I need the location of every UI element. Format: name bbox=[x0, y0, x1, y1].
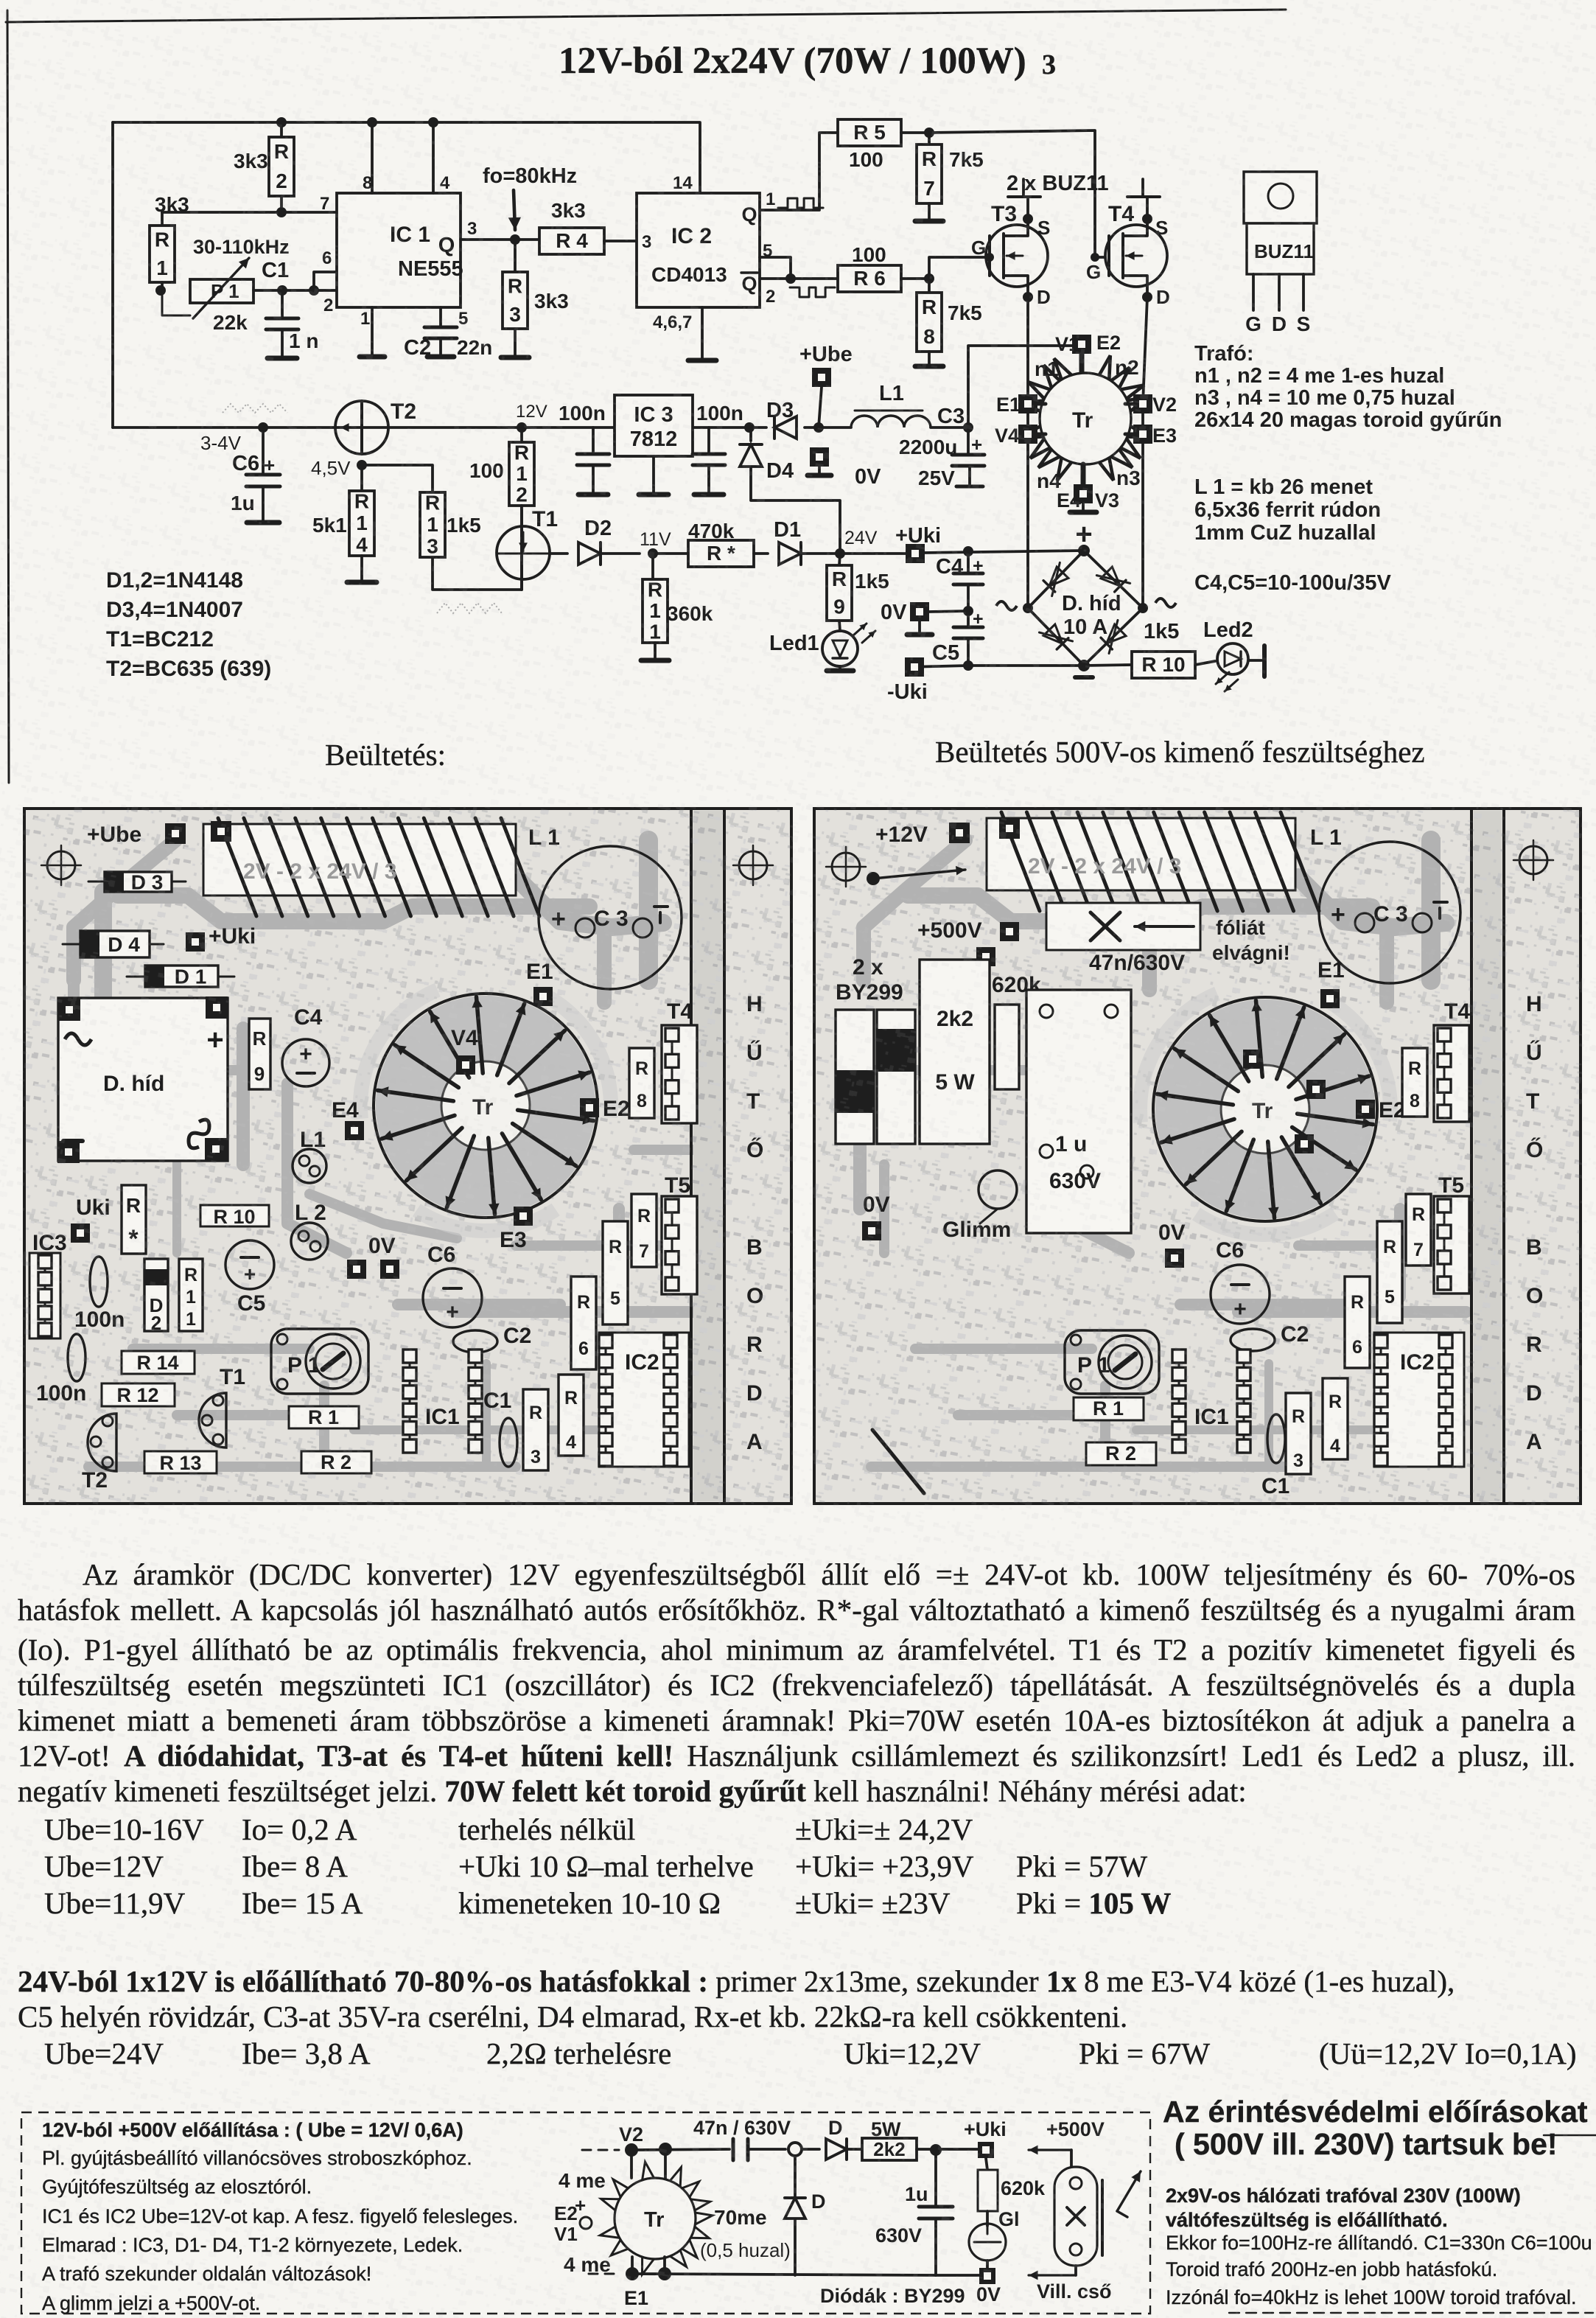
left PCB copper traces bbox=[70, 833, 704, 1467]
node: pin2 junction bbox=[309, 248, 333, 315]
node V4 pad bbox=[995, 425, 1046, 447]
zener diode D (mini) bbox=[785, 2156, 826, 2275]
LED Led2 bbox=[1195, 618, 1264, 691]
right PCB IC2 socket bbox=[1374, 1333, 1464, 1467]
mini Tr top leads bbox=[619, 2123, 672, 2179]
wire: 12V centre-tap feed to transformer bbox=[968, 346, 1082, 427]
wire: P1 to C1 to IC1 pin2/6 bbox=[253, 272, 337, 290]
left PCB diode D4 bbox=[63, 931, 164, 957]
left PCB resistor R12 bbox=[102, 1383, 175, 1406]
diode D2 (1N4148) bbox=[550, 517, 640, 565]
label: L1 notes bbox=[1194, 475, 1381, 545]
right PCB capacitor 1u 630V box bbox=[1026, 990, 1131, 1233]
flash tube Vill.cso (mini) bbox=[1029, 2167, 1141, 2303]
resistor R7 bbox=[901, 133, 984, 221]
left PCB diode D3 bbox=[88, 871, 186, 894]
left PCB resistor R10 bbox=[200, 1205, 269, 1228]
right PCB resistor R2 bbox=[1086, 1442, 1156, 1465]
resistor R9 bbox=[827, 554, 889, 631]
right PCB pad 0V middle bbox=[1158, 1221, 1186, 1268]
left PCB corner marks bbox=[41, 845, 773, 885]
capacitor C5 bbox=[932, 609, 984, 666]
transistor T4 (BUZ11 MOSFET) bbox=[1086, 179, 1170, 308]
right PCB capacitor C6 bbox=[1211, 1238, 1270, 1324]
right PCB resistor R7 bbox=[1406, 1194, 1431, 1266]
left PCB pad V4 bbox=[451, 1026, 478, 1075]
node: 0V junction bbox=[963, 606, 973, 616]
node: R1 bottom junction bbox=[155, 285, 166, 296]
left PCB capacitor C3 bbox=[539, 846, 682, 989]
left PCB capacitor C4 bbox=[282, 1005, 329, 1086]
left PCB resistor R13 bbox=[144, 1451, 217, 1474]
right PCB pad +500V bbox=[917, 918, 1019, 966]
wire: -Uki rail bbox=[907, 665, 1132, 667]
capacitor C2 bbox=[404, 307, 492, 360]
right PCB resistor R8 bbox=[1402, 1048, 1427, 1117]
right PCB resistor R4 bbox=[1323, 1378, 1348, 1459]
left PCB resistor R-star bbox=[122, 1185, 146, 1254]
diode D4 (1N4007) bbox=[740, 427, 840, 554]
node E1 pad bbox=[996, 394, 1046, 416]
right PCB capacitor C3 bbox=[1319, 842, 1460, 983]
left PCB resistor R5 bbox=[603, 1221, 628, 1324]
potentiometer P1 bbox=[162, 236, 290, 334]
flip-flop IC2 CD4013 bbox=[637, 173, 760, 332]
mini Tr E2/V1 terminal bbox=[554, 2194, 592, 2245]
right PCB pad E1 bbox=[1317, 958, 1345, 1008]
node E3 pad bbox=[1125, 425, 1177, 447]
node: R5 junction bbox=[924, 128, 934, 138]
right PCB diodes 2x BY299 bbox=[836, 955, 915, 1144]
pad +Uki bbox=[895, 524, 941, 563]
label: D/T part equivalences bbox=[106, 568, 271, 681]
wire: R13 bottom to T1 bbox=[433, 557, 522, 590]
wire: T4 drain to bridge right bbox=[1143, 297, 1147, 608]
BUZ11 package drawing bbox=[1244, 172, 1317, 335]
resistor 2k2 5W (mini) bbox=[862, 2118, 980, 2160]
label: C4,C5 note bbox=[1194, 571, 1391, 595]
left PCB capacitor C2 bbox=[453, 1324, 531, 1352]
right PCB transistor T4 package bbox=[1434, 999, 1470, 1122]
right PCB pad E2 bbox=[1356, 1098, 1406, 1123]
right PCB board outline bbox=[814, 809, 1581, 1504]
pad 0V output bbox=[881, 601, 968, 635]
op-amp U1: IC1 NE555 timer bbox=[337, 173, 477, 329]
resistor R8 bbox=[915, 279, 982, 366]
node: C1 junction bbox=[277, 285, 287, 296]
left PCB resistor R4 bbox=[559, 1375, 584, 1456]
resistor R1 bbox=[150, 193, 189, 290]
left PCB inductor L1 winding area bbox=[203, 818, 560, 916]
left PCB capacitor 100n lower bbox=[36, 1334, 86, 1406]
glimm lamp Gl (mini) bbox=[969, 2208, 1020, 2270]
right PCB toroid pads bbox=[1243, 1050, 1326, 1153]
right PCB jumper arrow bbox=[867, 866, 965, 885]
transformer Tr (toroid) bbox=[1020, 355, 1151, 492]
node: pin2/pin5 junction bbox=[785, 273, 796, 284]
wire: 24V output rail bbox=[840, 551, 1084, 554]
node: R6 junction bbox=[924, 273, 934, 284]
node: C6 junction bbox=[200, 422, 268, 454]
node V1/E2 pad (transformer top) bbox=[1055, 332, 1121, 355]
right PCB glimm lamp bbox=[942, 1170, 1017, 1242]
capacitor: 100n after IC3 bbox=[693, 402, 743, 495]
right PCB capacitor 47n/630V label bbox=[1089, 951, 1185, 975]
right PCB transistor T5 package bbox=[1434, 1173, 1469, 1294]
wire: R6 junction to T3 gate bbox=[929, 257, 990, 279]
pad 0V near L1 bbox=[808, 447, 881, 489]
right PCB pen stroke bbox=[872, 1430, 924, 1493]
resistor R12 bbox=[469, 427, 534, 506]
node: 11V junction bbox=[640, 529, 671, 559]
diode D (mini, series) bbox=[826, 2117, 862, 2160]
mini dashed stub bbox=[589, 2273, 621, 2275]
right PCB resistor 2k2 5W bbox=[920, 960, 990, 1144]
left PCB resistor R9 bbox=[249, 1019, 270, 1089]
left PCB board outline bbox=[24, 809, 791, 1504]
diode D3 (1N4007) bbox=[766, 399, 797, 439]
left PCB inductor L1 ferrite bbox=[293, 1128, 326, 1183]
transistor T1 (BC212) bbox=[497, 506, 558, 590]
node: R12 junction 12V bbox=[516, 402, 547, 433]
resistor R4 bbox=[539, 199, 637, 254]
left PCB resistor R3 bbox=[523, 1389, 548, 1470]
left PCB pad E2 bbox=[580, 1097, 630, 1121]
pad +Ube bbox=[799, 343, 853, 427]
node: pin3 junction bbox=[510, 234, 520, 245]
left PCB resistor R14 bbox=[122, 1351, 195, 1374]
capacitor: 100n before IC3 bbox=[559, 402, 609, 495]
left PCB IC2 socket bbox=[599, 1333, 689, 1467]
left PCB pad +Uki bbox=[186, 924, 256, 952]
resistor R* bbox=[653, 520, 754, 567]
left PCB diode D2 bbox=[144, 1259, 168, 1334]
transistor T2 (BC635) bbox=[335, 399, 416, 454]
diode D1 (1N4148) bbox=[754, 518, 840, 565]
resistor R5 bbox=[838, 119, 901, 171]
capacitor 1u 630V (mini) bbox=[875, 2156, 953, 2275]
left PCB transistor T2 bbox=[82, 1414, 116, 1493]
wire: IC1 pin4 to rail bbox=[432, 122, 435, 193]
capacitor 47n/630V (mini) bbox=[693, 2117, 791, 2160]
wire: IC2 Qbar pin2 to R6 bbox=[760, 241, 838, 307]
left PCB resistor R8 bbox=[629, 1048, 654, 1118]
left PCB pad E4 bbox=[332, 1098, 364, 1140]
resistor R14 bbox=[312, 465, 377, 582]
right PCB inductor L1 winding area bbox=[987, 812, 1342, 911]
left PCB resistor R1 bbox=[289, 1406, 359, 1428]
resistor R3 bbox=[501, 240, 569, 357]
transistor T3 (BUZ11 MOSFET) bbox=[971, 179, 1051, 308]
node: rail junction IC1 pin4 bbox=[428, 117, 438, 128]
right PCB copper traces bbox=[860, 833, 1466, 1467]
diode bridge D.hid 10A bbox=[996, 518, 1176, 677]
right PCB heatsink strip HUTO BORDA bbox=[1471, 809, 1543, 1504]
right PCB resistor R3 bbox=[1286, 1393, 1311, 1474]
node E4/V3 pad (transformer bottom) bbox=[1057, 464, 1119, 512]
label: Trafo winding notes bbox=[1194, 342, 1502, 432]
wire: 12V rail (schematic middle) bbox=[113, 426, 968, 429]
node: C4 junction bbox=[963, 546, 973, 556]
capacitor C1 bbox=[262, 259, 318, 358]
wire: T2 emitter to R13 bbox=[362, 465, 433, 492]
wire: R5 junction to T4 gate bbox=[929, 130, 1105, 257]
left PCB transformer Tr toroid bbox=[374, 994, 598, 1218]
pad -Uki bbox=[887, 657, 928, 704]
left PCB IC3 socket bbox=[29, 1231, 67, 1338]
left PCB diode D1 bbox=[127, 966, 234, 988]
mini Tr bottom leads bbox=[624, 2257, 671, 2309]
left PCB bridge D.hid bbox=[57, 996, 228, 1163]
left PCB capacitor C6 bbox=[423, 1243, 482, 1327]
wire: mini bottom rail bbox=[632, 2274, 980, 2275]
left PCB pad E3 bbox=[500, 1207, 533, 1252]
node: rail junction R2 bbox=[276, 117, 287, 128]
left PCB capacitor C1 bbox=[483, 1389, 517, 1467]
left PCB resistor R6 bbox=[571, 1277, 596, 1369]
pad 0V (mini) bbox=[976, 2268, 1001, 2305]
left PCB transistor T5 package bbox=[662, 1173, 697, 1294]
label +500V with arrow (mini) bbox=[1029, 2118, 1105, 2167]
dashed separators bottom right bbox=[1229, 2135, 1596, 2313]
resistor R6 bbox=[838, 243, 929, 292]
LED Led1 bbox=[769, 624, 875, 671]
right PCB pad 0V left bbox=[862, 1193, 890, 1240]
label Diodak BY299 bbox=[820, 2285, 965, 2307]
left PCB transistor T1 bbox=[199, 1365, 245, 1448]
node: mini junction (zener) bbox=[788, 2143, 819, 2156]
resistor 620k (mini) bbox=[978, 2158, 1046, 2226]
label: 2 x BUZ11 bbox=[1007, 172, 1109, 195]
left PCB pad +Ube bbox=[87, 821, 231, 847]
resistor R11 bbox=[641, 554, 713, 660]
wire: mini top rail bbox=[582, 2149, 729, 2150]
left PCB resistor R7 bbox=[631, 1194, 657, 1267]
scan artifact zigzags bbox=[223, 404, 502, 613]
wire: IC1 pin3 output bbox=[461, 238, 539, 241]
left PCB capacitor 100n upper bbox=[74, 1257, 125, 1332]
node: D3/D4 junction bbox=[744, 422, 755, 433]
left PCB resistor R2 bbox=[301, 1451, 371, 1473]
capacitor C4 bbox=[936, 551, 984, 611]
mini transformer Tr (toroid) bbox=[559, 2162, 791, 2276]
node: +Ube junction bbox=[813, 422, 824, 433]
node: rail junction IC1 pin8 bbox=[367, 117, 377, 128]
right PCB capacitor C1 bbox=[1261, 1414, 1289, 1498]
wire: IC2 Q pin1 to R5 bbox=[760, 133, 838, 210]
wire: IC1 pin7 net bbox=[162, 212, 337, 226]
right PCB cut-foil box bbox=[1046, 903, 1200, 950]
node: T2 emitter junction bbox=[311, 457, 367, 479]
pad +Uki (mini) bbox=[964, 2118, 1007, 2158]
right PCB IC1 socket bbox=[1172, 1350, 1250, 1453]
left PCB pad E1 bbox=[526, 960, 553, 1006]
right PCB corner marks bbox=[826, 840, 1553, 887]
regulator IC3 7812 bbox=[615, 395, 693, 495]
left PCB trimmer P1 bbox=[271, 1329, 368, 1394]
left PCB heatsink strip HUTO BORDA bbox=[691, 809, 763, 1504]
right PCB resistor R6 bbox=[1345, 1277, 1370, 1368]
resistor R2 bbox=[234, 122, 294, 212]
right PCB resistor R1 bbox=[1074, 1397, 1144, 1420]
right PCB pad +12V bbox=[875, 818, 1020, 847]
right PCB label foliat elvagni bbox=[1212, 916, 1290, 964]
wire: IC2 pin 4,6,7 to ground bbox=[688, 307, 716, 360]
left PCB pad Uki bbox=[71, 1195, 111, 1243]
right PCB capacitor C2 bbox=[1231, 1322, 1309, 1351]
left PCB resistor R11 bbox=[179, 1259, 203, 1331]
capacitor C3 2200u/25V bbox=[899, 427, 984, 489]
right PCB trimmer P1 bbox=[1065, 1330, 1159, 1394]
node: C5 bottom junction bbox=[963, 660, 973, 671]
node: 24V junction bbox=[835, 528, 878, 559]
inductor L1 bbox=[851, 382, 931, 427]
left PCB transistor T4 package bbox=[662, 999, 697, 1123]
resistor R13 bbox=[420, 492, 481, 558]
left PCB capacitor C5 bbox=[225, 1240, 274, 1316]
left PCB inductor L2 bbox=[291, 1201, 328, 1260]
wire: IC1 pin8 to rail bbox=[371, 122, 374, 193]
right PCB transformer Tr toroid bbox=[1153, 997, 1377, 1221]
resistor R10 bbox=[1132, 620, 1195, 678]
left PCB pads 0V bbox=[347, 1234, 399, 1279]
node: C3 junction bbox=[937, 405, 973, 433]
right PCB resistor 620k bbox=[992, 973, 1041, 1089]
label: fo=80kHz bbox=[483, 164, 577, 230]
node: mini +Uki junction bbox=[930, 2144, 942, 2156]
wire: T3 drain to bridge left bbox=[1026, 297, 1029, 608]
wire: +12V top supply rail bbox=[113, 122, 700, 427]
left PCB IC1 socket bbox=[403, 1350, 482, 1453]
dashed box (bottom note area) bbox=[21, 2112, 1150, 2314]
node V2 pad bbox=[1125, 394, 1177, 416]
node: R2-pin7 junction bbox=[276, 194, 329, 217]
wire: IC1 pin1 to ground bbox=[360, 307, 385, 357]
right PCB resistor R5 bbox=[1377, 1221, 1402, 1323]
capacitor C6 bbox=[231, 427, 280, 523]
